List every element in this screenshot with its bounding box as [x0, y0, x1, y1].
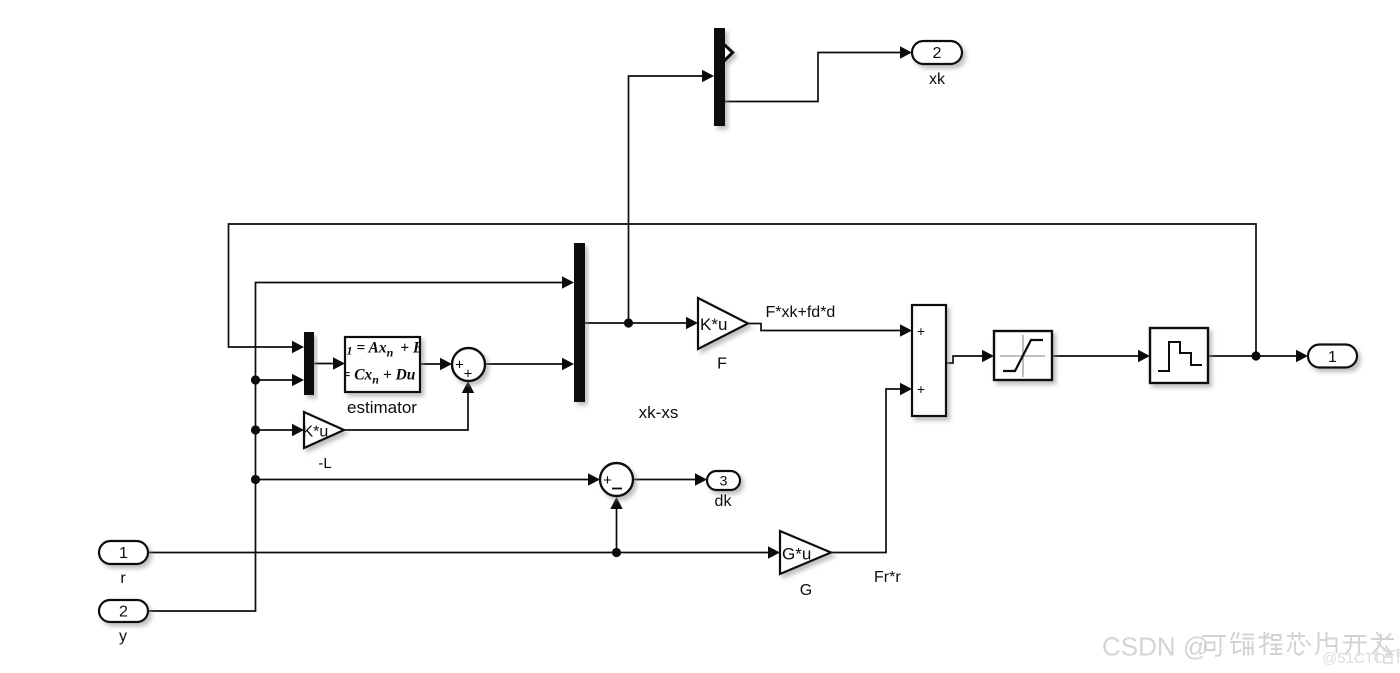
svg-text:y: y — [119, 628, 127, 645]
svg-text:G*u: G*u — [782, 545, 811, 564]
wire: gain F output to sum block input 1 — [748, 324, 900, 331]
watermark CSDN @可编程芯片开发 — [1102, 632, 1393, 662]
arrowhead into sum block input 2 — [900, 383, 912, 395]
wire: zero-order hold output to outport 1 — [1208, 355, 1297, 357]
wire: estimator output to sum1 — [420, 363, 442, 365]
svg-text:r: r — [120, 570, 126, 587]
arrowhead into sum1 — [440, 358, 452, 370]
wire: bus branch to small mux input 2 — [256, 379, 295, 381]
sum2 (+ -) circle — [600, 463, 633, 496]
svg-text:2: 2 — [933, 45, 942, 62]
arrowhead into zero-order hold — [1138, 350, 1150, 362]
arrowhead into selector — [702, 70, 714, 82]
svg-text:+: + — [917, 323, 925, 339]
wire: bus branch to sum2 left input — [256, 479, 591, 481]
wire: gain G output up to sum block input 2 — [831, 389, 900, 553]
arrowhead up into sum2 bottom — [610, 497, 622, 509]
inport 1 — [99, 541, 148, 564]
arrowhead into gain -L — [292, 424, 304, 436]
svg-text:1: 1 — [119, 545, 128, 562]
junction node on y bus at -L branch — [251, 425, 260, 434]
zero-order hold block — [1150, 328, 1208, 383]
hanzi fa — [1372, 633, 1393, 655]
arrowhead into estimator — [333, 357, 345, 369]
hanzi bo — [1374, 649, 1395, 663]
gain F — [698, 298, 748, 349]
svg-text:+: + — [917, 381, 925, 397]
svg-text:+: + — [603, 472, 612, 489]
hanzi pian — [1316, 633, 1337, 654]
wire: big mux output to gain F — [585, 322, 687, 324]
svg-text:F*xk+fd*d: F*xk+fd*d — [766, 304, 836, 321]
svg-text:K*u: K*u — [700, 315, 727, 334]
svg-text:G: G — [800, 582, 812, 599]
inport 2 — [99, 600, 148, 622]
svg-text:-L: -L — [318, 455, 331, 472]
wire: saturation output to zero-order hold — [1052, 355, 1139, 357]
hanzi cheng — [1259, 633, 1282, 654]
wire: sum block output to saturation — [946, 356, 983, 363]
junction node on y bus at mux branch — [251, 375, 260, 384]
svg-text:dk: dk — [715, 493, 733, 510]
svg-text:K*u: K*u — [303, 424, 329, 441]
estimator block — [342, 337, 424, 392]
svg-text:F: F — [717, 356, 727, 373]
wire: small mux output to estimator — [314, 363, 335, 365]
wire: selector input vertical from mux-output junction up to selector — [629, 76, 706, 323]
small mux — [304, 332, 314, 395]
svg-text:2: 2 — [119, 604, 128, 621]
big mux xk-xs — [574, 243, 585, 402]
saturation block — [994, 331, 1052, 380]
junction node before outport 1 — [1251, 351, 1260, 360]
arrowhead up into sum1 bottom — [462, 381, 474, 393]
arrowhead into outport 1 — [1296, 350, 1308, 362]
sum block (rect + +) — [912, 305, 946, 416]
junction node on mux output — [624, 318, 633, 327]
svg-text:estimator: estimator — [347, 398, 417, 417]
svg-text:1: 1 — [1328, 349, 1337, 366]
gain G — [780, 531, 831, 574]
wire: y signal bus from inport 2 up and right to big mux input 1 — [148, 283, 563, 612]
wire: outer feedback loop from output junction to small mux input 1 — [229, 224, 1257, 356]
arrowhead into saturation — [982, 350, 994, 362]
svg-text:xk-xs: xk-xs — [639, 403, 679, 422]
svg-text:Fr*r: Fr*r — [874, 569, 901, 586]
arrowhead into big mux input 2 — [562, 358, 574, 370]
arrowhead into sum2 — [588, 473, 600, 485]
arrowhead into gain F — [686, 317, 698, 329]
svg-text:CSDN @: CSDN @ — [1102, 632, 1209, 662]
outport 3 — [707, 471, 740, 490]
arrowhead into outport 3 — [695, 473, 707, 485]
wire: r signal from inport 1 to gain G — [148, 552, 769, 554]
arrowhead into outport 2 — [900, 46, 912, 58]
hanzi xin — [1288, 633, 1310, 655]
svg-text:+: + — [464, 366, 473, 383]
svg-text:xk: xk — [929, 71, 946, 88]
wire: gain -L output to sum1 bottom input — [344, 393, 468, 430]
wire: sum1 output to big mux input 2 — [485, 363, 563, 365]
hanzi bian — [1231, 633, 1253, 655]
svg-text:3: 3 — [720, 473, 728, 489]
selector block (black bar with chevron) — [714, 28, 733, 126]
hanzi kai — [1344, 636, 1366, 655]
junction node on r line — [612, 548, 621, 557]
junction node on y bus at sum2 branch — [251, 475, 260, 484]
arrowhead into sum block input 1 — [900, 324, 912, 336]
arrowhead into big mux input 1 — [562, 276, 574, 288]
sum1 (+ +) circle — [452, 348, 485, 383]
hanzi ke — [1203, 636, 1225, 656]
wire: r branch up to sum2 bottom input — [616, 508, 618, 553]
wire: selector output to outport 2 — [725, 53, 902, 102]
arrowhead into small mux input 1 — [292, 341, 304, 353]
wire: sum2 output to outport 3 — [633, 479, 696, 481]
arrowhead into gain G — [768, 546, 780, 558]
arrowhead into small mux input 2 — [292, 374, 304, 386]
outport 1 — [1308, 345, 1357, 368]
watermark @51CTO博客 — [1322, 649, 1400, 667]
svg-text:@51CTO: @51CTO — [1322, 650, 1385, 667]
outport 2 — [912, 41, 962, 64]
wire: bus branch to gain -L input — [256, 429, 295, 431]
gain -L — [303, 412, 345, 448]
hanzi ke — [1396, 650, 1400, 663]
